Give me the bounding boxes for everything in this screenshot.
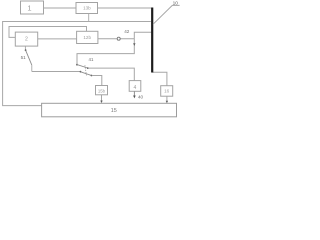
box 16 (161, 86, 173, 97)
wire box12b to node and up-jog to plate (98, 38, 134, 40)
svg-text:15b: 15b (98, 88, 106, 93)
switch 41 gang link (85, 65, 87, 76)
svg-text:41: 41 (89, 57, 94, 62)
stub box13b down to return bus (88, 14, 90, 22)
box 13b (76, 3, 98, 14)
switch 41 lower pole (80, 71, 82, 73)
wire plate bottom to box16 (153, 72, 167, 85)
wire switch51 to lower pole of switch 41 (32, 71, 81, 73)
svg-text:15: 15 (111, 108, 117, 114)
wire box1 to box13b (44, 7, 77, 9)
arrowhead on vertical wire (133, 43, 135, 46)
box 1 (21, 1, 44, 14)
box 4 (129, 81, 141, 92)
svg-text:40: 40 (138, 95, 144, 100)
box 15 (42, 103, 177, 117)
inner feedback wire (box12b top to box2 left) (9, 27, 87, 38)
svg-text:51: 51 (21, 55, 27, 60)
box 15b (96, 86, 108, 95)
wire box16 to box15 with arrowhead (166, 96, 168, 101)
box 2 (15, 32, 37, 46)
box 12b (77, 31, 98, 43)
wire upper pole output to box4 (88, 68, 134, 81)
switch 41 upper pole (76, 64, 78, 66)
svg-text:4: 4 (134, 85, 137, 91)
wire box15b to box15 with arrowhead (101, 95, 103, 102)
wire lower pole output to box15b (92, 76, 102, 86)
svg-text:12b: 12b (83, 35, 91, 40)
wire node down and across to switch input (77, 39, 134, 64)
svg-text:13b: 13b (83, 6, 91, 11)
wire box13b to plate (98, 7, 152, 9)
wire box2 to box12b (38, 38, 77, 40)
plate 10 (151, 8, 153, 73)
node circle 42 (117, 37, 120, 40)
svg-text:2: 2 (25, 37, 28, 43)
svg-text:1: 1 (27, 3, 31, 12)
arrow 40 below box4 (133, 91, 135, 96)
leader line to label 10 (153, 5, 180, 24)
switch 51 from box2 (24, 46, 26, 50)
svg-text:10: 10 (173, 1, 179, 7)
svg-text:16: 16 (164, 89, 170, 94)
svg-text:42: 42 (124, 29, 130, 34)
outer return wire (plate to box15) (3, 22, 151, 106)
